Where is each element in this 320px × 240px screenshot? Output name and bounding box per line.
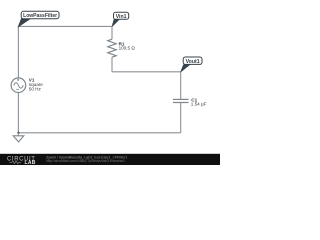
LowPassFilter flag box — [21, 11, 59, 18]
net label LowPassFilter — [18, 11, 59, 26]
wire left vertical from top corner down to V1 + terminal — [17, 26, 19, 78]
svg-text:Vout1: Vout1 — [186, 59, 200, 65]
C1 bottom lead — [180, 103, 182, 133]
ground triangle — [13, 136, 24, 142]
svg-text:LowPassFilter: LowPassFilter — [23, 13, 57, 19]
ground — [13, 133, 24, 142]
V1 plus polarity mark — [17, 79, 19, 81]
R1 bottom lead — [111, 57, 113, 72]
logo resistor squiggle — [10, 161, 22, 164]
R1 zigzag body — [108, 39, 117, 57]
junction dot at ground node — [17, 132, 19, 134]
CircuitLab logo — [7, 156, 36, 166]
svg-text:LAB: LAB — [25, 160, 36, 165]
wire vertical from V1 - terminal down to ground rail — [17, 92, 19, 132]
V1 minus polarity mark — [16, 88, 19, 90]
R1 top lead — [111, 26, 113, 39]
net label Vin1 — [112, 12, 129, 26]
svg-text:100.5 Ω: 100.5 Ω — [119, 45, 136, 50]
resistor R1 — [108, 26, 136, 71]
wire top horizontal from V1 to R1 (net Vin1) — [18, 25, 112, 27]
Vout1 flag pointer wedge — [181, 65, 190, 72]
svg-text:1.54 µF: 1.54 µF — [191, 101, 207, 106]
LowPassFilter flag pointer wedge — [18, 19, 30, 27]
Vout1 flag box — [183, 57, 202, 64]
svg-text:http://circuitlab.com/c/8kq77p: http://circuitlab.com/c/8kq77p5wdyv/lab3… — [46, 159, 125, 163]
wire mid horizontal from R1 to C1 (net Vout1) — [112, 71, 181, 73]
capacitor C1 — [173, 72, 207, 133]
V1 circle body — [11, 78, 26, 93]
svg-text:50 Hz: 50 Hz — [29, 86, 42, 91]
footer bar — [0, 154, 220, 165]
ground stub — [17, 133, 19, 136]
Vin1 flag pointer wedge — [112, 19, 120, 27]
Vin1 flag box — [114, 12, 129, 19]
C1 bottom plate — [173, 102, 189, 104]
svg-text:Vin1: Vin1 — [116, 14, 127, 20]
voltage source V1 — [11, 78, 43, 93]
net label Vout1 — [181, 57, 202, 72]
wire bottom horizontal ground rail — [18, 132, 180, 134]
C1 top lead — [180, 72, 182, 100]
V1 waveform glyph — [14, 83, 24, 89]
C1 top plate — [173, 98, 189, 100]
